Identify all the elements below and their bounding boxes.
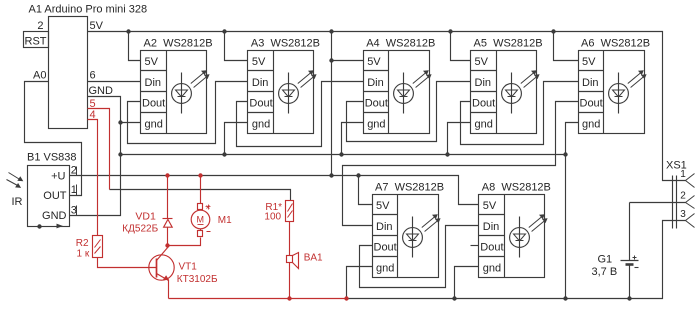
junction 5V rail / A3 riser <box>222 29 226 33</box>
svg-text:5V: 5V <box>367 56 381 68</box>
svg-text:G1: G1 <box>598 254 613 266</box>
svg-text:A1 Arduino Pro mini 328: A1 Arduino Pro mini 328 <box>29 4 148 16</box>
XS1 pin 1 socket <box>680 169 694 187</box>
svg-text:КТ3102Б: КТ3102Б <box>177 274 218 285</box>
junction A4 riser / A4 5V pin <box>329 58 333 62</box>
junction 5V rail / A5 riser <box>448 29 452 33</box>
wire 5V riser A3 <box>225 32 248 61</box>
junction bottom bus / GND drop <box>563 296 567 300</box>
junction bottom bus / A7 gnd <box>344 296 348 300</box>
svg-text:КД522Б: КД522Б <box>122 223 158 234</box>
junction 5V rail / A2 riser <box>126 29 130 33</box>
wire A3 gnd <box>225 123 248 155</box>
wire chain A5 Dout to A6 Din <box>461 82 579 145</box>
resistor R2 <box>76 236 103 260</box>
svg-text:2: 2 <box>71 164 77 176</box>
speaker BA1 <box>287 253 324 269</box>
svg-text:Din: Din <box>582 77 599 89</box>
XS1 pin 3 socket <box>680 209 694 227</box>
wire red bottom bus <box>169 298 347 300</box>
arduino U A1 <box>29 4 148 129</box>
svg-text:2: 2 <box>37 20 43 32</box>
svg-text:Dout: Dout <box>472 98 495 110</box>
wire A0 to B1 OUT <box>25 82 82 196</box>
svg-text:5V: 5V <box>252 56 266 68</box>
svg-text:3: 3 <box>680 209 686 220</box>
svg-text:Dout: Dout <box>374 242 397 254</box>
wire pin5 horizontal to R1 <box>110 190 291 201</box>
svg-text:gnd: gnd <box>367 119 385 131</box>
wire pin6 to A2 Din <box>88 81 141 83</box>
svg-text:gnd: gnd <box>483 263 501 275</box>
junction GND bus / A5 gnd <box>445 152 449 156</box>
battery G1 <box>592 254 639 279</box>
transistor VT1 <box>149 247 218 299</box>
IR arrows <box>7 173 24 209</box>
junction 5V rail / A4 riser <box>329 29 333 33</box>
svg-text:OUT: OUT <box>43 190 67 202</box>
module A7 WS2812B <box>373 182 445 278</box>
svg-text:2: 2 <box>680 190 686 201</box>
module A3 WS2812B <box>248 38 320 134</box>
junction GND bus / A4 gnd <box>339 152 343 156</box>
wire chain A3 Dout to A4 Din <box>237 82 364 147</box>
svg-text:A3 WS2812B: A3 WS2812B <box>251 38 320 50</box>
svg-text:B1 VS838: B1 VS838 <box>27 152 77 164</box>
svg-text:Din: Din <box>483 221 500 233</box>
svg-text:A6 WS2812B: A6 WS2812B <box>581 38 650 50</box>
svg-text:5V: 5V <box>475 56 489 68</box>
diode VD1 <box>122 211 172 235</box>
svg-text:1: 1 <box>71 184 77 196</box>
wire 5V riser A6 <box>554 32 579 61</box>
wire A6 gnd drop to bottom bus <box>566 123 579 299</box>
svg-text:A8 WS2812B: A8 WS2812B <box>482 182 551 194</box>
junction GND bus / A6 gnd drop <box>563 152 567 156</box>
XS1 pin 2 socket <box>680 190 694 208</box>
wire A8 Dout stub <box>471 245 479 247</box>
junction 5V mid line / M1 <box>198 173 202 177</box>
wire 5V riser A4 feeding mid line <box>332 32 364 176</box>
wire battery minus to bus <box>629 265 631 299</box>
svg-text:gnd: gnd <box>475 119 493 131</box>
wire chain A7 Dout to A8 Din <box>360 226 479 288</box>
B1 bottom marker <box>37 224 63 229</box>
svg-text:GND: GND <box>89 85 114 97</box>
wire A5 gnd <box>448 123 471 155</box>
svg-text:Dout: Dout <box>480 242 503 254</box>
wire chain A4 Dout to A5 Din <box>347 82 471 142</box>
svg-text:5V: 5V <box>145 56 159 68</box>
wire data A6 Dout to A7 Din <box>343 102 579 226</box>
svg-text:5V: 5V <box>376 200 390 212</box>
svg-text:100: 100 <box>264 212 281 223</box>
svg-text:5V: 5V <box>582 56 596 68</box>
wire A7 5V riser <box>359 176 373 205</box>
svg-text:Din: Din <box>475 77 492 89</box>
svg-text:1 к: 1 к <box>77 248 90 259</box>
junction bottom bus / BA1 <box>287 296 291 300</box>
connector XS1 <box>666 160 687 229</box>
svg-text:Din: Din <box>145 77 162 89</box>
svg-text:Dout: Dout <box>249 98 272 110</box>
wire A4 gnd <box>342 123 364 155</box>
svg-text:1: 1 <box>680 169 686 180</box>
wire R2 to VT1 base <box>98 258 157 268</box>
module A8 WS2812B <box>479 182 551 278</box>
wire 5V riser A5 <box>451 32 471 61</box>
module A5 WS2812B <box>471 38 543 134</box>
resistor R1* <box>264 201 293 223</box>
svg-text:GND: GND <box>42 210 67 222</box>
svg-text:A4 WS2812B: A4 WS2812B <box>366 38 435 50</box>
svg-text:A5 WS2812B: A5 WS2812B <box>474 38 543 50</box>
wire A2 gnd <box>121 122 141 124</box>
svg-text:BA1: BA1 <box>304 253 323 264</box>
svg-text:+U: +U <box>51 170 65 182</box>
junction GND riser / A2 gnd <box>118 120 122 124</box>
svg-text:Din: Din <box>367 77 384 89</box>
terminal RST <box>24 20 49 48</box>
wire M1 branch <box>168 176 201 246</box>
svg-text:A7 WS2812B: A7 WS2812B <box>375 182 444 194</box>
svg-text:M1: M1 <box>218 215 232 226</box>
svg-text:Din: Din <box>252 77 269 89</box>
junction VD1 / M1 / VT1 collector <box>165 243 169 247</box>
svg-text:Dout: Dout <box>365 98 388 110</box>
junction 5V mid line / VD1 <box>165 173 169 177</box>
svg-text:M: M <box>197 215 205 225</box>
junction GND bus / A3 gnd <box>222 152 226 156</box>
wire bottom GND bus black part to XS1 pin3 <box>347 221 686 299</box>
junction bottom bus / G1 minus <box>627 296 631 300</box>
svg-text:5V: 5V <box>90 20 104 32</box>
wire pin4 red to R2 <box>88 120 98 236</box>
svg-text:3,7 В: 3,7 В <box>592 266 618 278</box>
IR receiver B1 VS838 <box>27 152 77 227</box>
wire battery plus to XS1 pin2 <box>630 203 686 261</box>
junction 5V rail / A6 riser <box>551 29 555 33</box>
svg-text:IR: IR <box>12 196 23 208</box>
wire VD1 branch <box>167 176 169 246</box>
junction bottom bus / A8 gnd <box>452 296 456 300</box>
module A4 WS2812B <box>364 38 436 134</box>
module A2 WS2812B <box>141 38 213 134</box>
module A6 WS2812B <box>579 38 651 134</box>
svg-text:5V: 5V <box>483 200 497 212</box>
junction 5V mid line / A7 riser <box>356 173 360 177</box>
svg-text:3: 3 <box>71 204 77 216</box>
wire +U 5V mid line to A8 5V <box>70 176 479 205</box>
svg-text:A0: A0 <box>33 70 46 82</box>
wire A7 gnd drop <box>347 267 373 299</box>
wire 5V rail to XS1 pin1 <box>88 32 686 181</box>
svg-text:gnd: gnd <box>145 119 163 131</box>
svg-text:A2 WS2812B: A2 WS2812B <box>144 38 213 50</box>
svg-text:Dout: Dout <box>580 98 603 110</box>
wire GND bus line <box>121 154 566 156</box>
motor M1 <box>191 204 232 237</box>
svg-text:VT1: VT1 <box>179 262 198 273</box>
svg-text:gnd: gnd <box>582 119 600 131</box>
svg-text:gnd: gnd <box>376 263 394 275</box>
svg-text:R2: R2 <box>76 238 89 249</box>
wire chain A2 Dout to A3 Din <box>128 82 248 144</box>
wire arduino GND riser to B1 GND <box>70 97 121 216</box>
svg-text:Din: Din <box>376 221 393 233</box>
wire 5V riser A2 <box>129 32 141 61</box>
wire R1 to BA1 to bus <box>289 222 291 299</box>
junction GND riser / GND bus <box>118 152 122 156</box>
wire A8 gnd drop <box>455 267 479 299</box>
svg-text:VD1: VD1 <box>135 211 156 223</box>
svg-text:RST: RST <box>25 36 47 48</box>
svg-text:6: 6 <box>90 70 96 82</box>
svg-text:gnd: gnd <box>252 119 270 131</box>
junction 5V mid line / A4 riser <box>329 173 333 177</box>
svg-text:Dout: Dout <box>142 98 165 110</box>
wire pin5 red <box>88 109 110 190</box>
